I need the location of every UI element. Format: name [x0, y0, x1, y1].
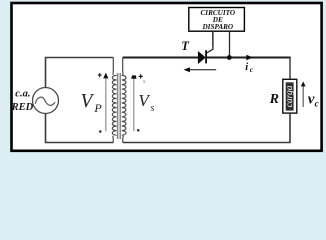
voltage arrow vc: [301, 81, 306, 107]
voltage arrow Vs: [131, 74, 146, 131]
wire: trigger box to cathode bus: [229, 31, 231, 57]
trigger circuit block CIRCUITO DE DISPARO: [189, 8, 245, 32]
voltage arrow VP: [98, 73, 109, 133]
svg-text:R: R: [269, 92, 279, 107]
current arrow ic: [246, 55, 253, 61]
AC source (c.a. RED): [33, 88, 59, 114]
wire: thyristor cathode to right corner, down to load: [206, 57, 291, 59]
svg-text:DISPARO: DISPARO: [201, 23, 233, 31]
transformer secondary winding: [122, 58, 126, 143]
label c.a. RED: [11, 88, 34, 113]
svg-text:s: s: [151, 103, 155, 114]
svg-text:T: T: [181, 39, 190, 53]
thyristor T: [198, 31, 213, 63]
label ic: [245, 62, 254, 74]
svg-text:RED: RED: [11, 102, 34, 113]
wire: source bottom to transformer primary bottom: [46, 114, 114, 143]
wire: trigger box to gate: [212, 31, 214, 46]
svg-text:V: V: [81, 91, 95, 112]
wire: load bottom to secondary bottom: [123, 113, 290, 142]
resistor R (carga): [283, 79, 297, 113]
label Vs: [138, 91, 154, 114]
svg-text:c: c: [315, 99, 319, 109]
wire: source top to transformer primary top: [46, 58, 114, 88]
junction on cathode bus: [227, 55, 232, 60]
svg-text:carga: carga: [285, 85, 295, 107]
label vc: [308, 92, 319, 109]
transformer primary winding: [112, 58, 116, 143]
svg-text:i: i: [245, 62, 248, 73]
svg-text:P: P: [93, 101, 102, 115]
svg-text:c.a.: c.a.: [15, 88, 30, 99]
transformer core: [117, 73, 120, 139]
label VP: [81, 91, 103, 115]
wire: secondary top to thyristor anode: [123, 57, 199, 59]
current direction arrow (points left, under thyristor): [184, 67, 217, 72]
